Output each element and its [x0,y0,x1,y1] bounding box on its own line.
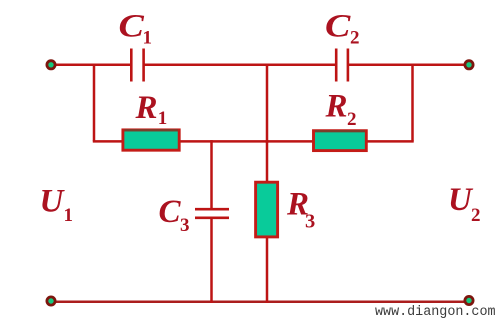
svg-text:U: U [40,183,66,219]
label C1 [119,7,153,49]
wire: left vertical drop from top rail to R1 row [93,64,96,142]
capacitor C2: right plate [347,49,350,82]
svg-text:R: R [135,90,158,126]
capacitor C2 (series, top-right): left plate [335,49,338,82]
svg-text:1: 1 [158,108,168,129]
resistor R2 (box, teal fill) [314,131,367,151]
wire: top rail, C2 right plate to right terminal [349,64,464,67]
wire: C3 bottom plate to bottom rail [210,219,213,303]
wire: C3 branch, middle row down to C3 top plate [210,140,213,208]
svg-text:1: 1 [64,205,74,226]
wire: middle row, R2 right lead to right vertical [367,140,414,143]
svg-text:3: 3 [305,211,315,233]
node: cross junction of center vertical with middle row [266,140,269,143]
capacitor C3 (shunt): top plate [195,208,229,211]
wire: center vertical from top rail through middle row to R3 top [266,64,269,182]
wire: right vertical drop from top rail to R2 row [411,64,414,142]
capacitor C3: bottom plate [195,217,229,220]
terminal: bottom-right port [465,296,473,304]
label C2 [325,7,360,49]
wire: R3 bottom to bottom rail [266,238,269,303]
label C3 [159,194,190,236]
capacitor C1 (series, top-left): left plate [130,49,133,82]
svg-text:R: R [325,89,348,125]
label U1 (input port voltage) [40,183,74,226]
label U2 (output port voltage) [448,182,481,226]
capacitor C1: right plate [142,49,145,82]
node: junction of R3 branch with bottom rail [266,301,269,304]
wire: top rail, left terminal to C1 left plate [55,64,131,67]
node: junction of center vertical with top rail [266,64,269,67]
label R2 [325,89,357,131]
svg-text:2: 2 [350,28,360,49]
node: junction of C3 branch with bottom rail [210,301,213,304]
svg-text:C: C [119,7,146,44]
wire: top rail, C1 right plate to C2 left plate [145,64,336,67]
svg-text:3: 3 [180,215,190,236]
wire: middle row, R1 right lead to R2 left lead [180,140,313,143]
svg-text:C: C [325,7,352,44]
terminal: top-right port [465,61,473,69]
svg-text:1: 1 [143,28,153,49]
resistor R1 (box, teal fill) [123,130,179,150]
svg-text:C: C [159,194,182,230]
svg-text:2: 2 [471,205,481,226]
label R3 [286,186,315,232]
terminal: top-left port [47,61,55,69]
wire: bottom rail, left terminal to right terminal [55,300,464,303]
svg-text:www.diangon.com: www.diangon.com [375,305,496,320]
resistor R3 (box, vertical, teal fill) [256,182,278,237]
label R1 [135,90,168,129]
wire: middle row, left vertical to R1 left lead [93,140,122,143]
svg-text:2: 2 [347,109,357,130]
terminal: bottom-left port [47,297,55,305]
